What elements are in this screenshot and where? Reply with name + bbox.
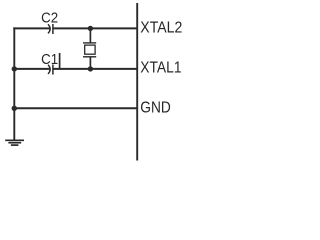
capacitor C2 (curved plate) [48,24,50,33]
ground symbol bar 2 [8,142,21,144]
crystal XTAL top lead [89,28,91,43]
ground symbol bar 1 [5,139,24,141]
junction: XTAL2 net / crystal [88,26,93,31]
crystal XTAL bottom plate [83,56,96,58]
capacitor C1 (curved plate) [48,65,50,74]
crystal XTAL top plate [83,42,96,44]
junction: left rail / GND net [12,106,17,111]
wire: left ground rail (vertical) [13,27,15,139]
chip edge (device pin boundary line) [136,3,138,161]
capacitor C1 (straight plate) [52,65,54,75]
svg-text:XTAL2: XTAL2 [140,19,182,36]
crystal XTAL bottom lead [89,57,91,69]
ground symbol bar 3 [11,144,19,146]
junction: left rail / XTAL1 net [12,66,17,71]
svg-text:XTAL1: XTAL1 [140,59,181,76]
capacitor C2 (straight plate) [52,24,54,34]
svg-text:GND: GND [140,100,171,117]
wire: C1 to chip edge (XTAL1 pin) [54,68,138,70]
wire: vertical stub beside C1 down to XTAL1 net [59,53,61,70]
wire: C2 to chip edge (XTAL2 pin) [54,27,138,29]
wire: XTAL2 net, left rail corner to C2 [13,27,50,29]
junction: XTAL1 net / crystal [88,66,93,71]
wire: XTAL1 net, left rail to C1 [13,68,50,70]
crystal XTAL body [85,45,95,54]
wire: GND net to chip edge (GND pin) [13,107,137,109]
svg-text:C2: C2 [41,10,58,26]
